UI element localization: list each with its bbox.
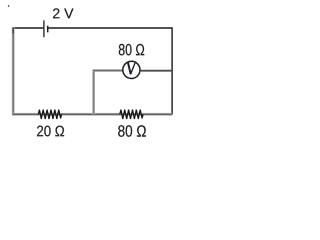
wire: left side of outer loop (soft grey) (12, 27, 15, 114)
wire: inner branch left vertical (soft grey) (92, 70, 95, 115)
label: 80 ohm (upper, voltmeter branch) (119, 44, 144, 56)
label: 20 ohm (37, 126, 64, 137)
resistor R2 zigzag (80 ohm, bottom right) (120, 110, 143, 119)
voltmeter V1 circle (123, 61, 140, 78)
battery B1 short plate (47, 26, 49, 33)
stray dot (speck at top-left) (8, 5, 10, 7)
wire: right side of outer loop (171, 27, 173, 114)
label: 2 V (battery value) (53, 8, 74, 18)
resistor R1 zigzag (20 ohm, bottom left) (38, 110, 61, 119)
wire: top, right segment from battery to top-right corner (48, 27, 172, 29)
wire: voltmeter branch, right segment (140, 70, 172, 72)
wire: top, left segment from top-left corner to battery (13, 27, 43, 29)
battery B1 long plate (43, 20, 45, 37)
wire: voltmeter branch, left segment (93, 69, 123, 72)
voltmeter V1 letter (127, 62, 136, 75)
wire: bottom of outer loop (soft grey) (12, 113, 172, 116)
label: 80 ohm (lower, resistor R2) (118, 125, 146, 137)
